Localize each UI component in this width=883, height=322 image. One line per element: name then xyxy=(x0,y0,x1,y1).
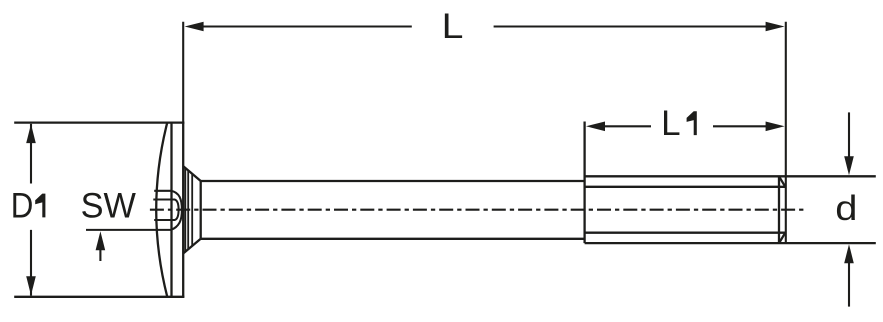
svg-text:L: L xyxy=(661,104,680,143)
svg-text:d: d xyxy=(835,189,857,228)
thread end chamfer edge xyxy=(778,176,780,243)
thread major bottom edge with d extension line xyxy=(585,242,876,244)
thread major top edge with d extension line xyxy=(585,175,876,177)
arrowhead L1 left xyxy=(586,122,605,132)
arrowhead L right xyxy=(766,22,785,32)
arrowhead L left xyxy=(185,22,204,32)
svg-text:L: L xyxy=(442,7,464,46)
arrowhead L1 right xyxy=(766,122,785,132)
thread minor top line xyxy=(585,186,786,188)
head rim edge line xyxy=(170,123,172,297)
label L1 xyxy=(661,104,697,143)
L/L1 right extension line merged with thread end face xyxy=(785,22,787,243)
d bottom arrow tail xyxy=(848,259,850,307)
head top edge with D1 extension line xyxy=(14,121,184,123)
dimension line L1 left segment xyxy=(604,125,651,127)
cone bottom diagonal xyxy=(183,239,200,254)
dimension line D1 upper segment xyxy=(30,124,32,184)
head back face xyxy=(182,123,184,297)
cone transition line 2 xyxy=(187,170,189,249)
svg-text:SW: SW xyxy=(81,186,136,225)
arrowhead d top xyxy=(844,156,854,175)
hex socket inner profile xyxy=(153,200,178,221)
centerline xyxy=(150,209,804,211)
head convex face arc xyxy=(156,123,167,297)
svg-text:D: D xyxy=(11,187,34,226)
shank bottom edge xyxy=(201,238,585,240)
dimension line L right segment xyxy=(494,25,768,27)
head bottom edge with D1 extension line xyxy=(14,296,184,298)
dimension line L1 right segment xyxy=(713,125,768,127)
arrowhead SW xyxy=(96,231,106,250)
L left extension line above head xyxy=(182,22,184,123)
thread end chamfer top diagonal xyxy=(779,176,785,187)
thread end chamfer bottom diagonal xyxy=(779,233,785,243)
shank start edge xyxy=(200,181,202,239)
cone transition line 3 xyxy=(191,174,193,246)
arrowhead D1 bottom xyxy=(26,276,36,295)
cone transition line 1 xyxy=(184,168,186,252)
hex socket outer profile with SW extension line xyxy=(86,191,182,230)
SW arrow tail xyxy=(99,246,101,261)
dimension line D1 lower segment xyxy=(30,230,32,296)
cone top diagonal xyxy=(183,166,200,181)
d top arrow tail xyxy=(848,112,850,160)
arrowhead D1 top xyxy=(26,124,36,143)
arrowhead d bottom xyxy=(844,244,854,263)
thread start edge with L1 extension line xyxy=(583,122,585,244)
label D1 xyxy=(11,187,46,226)
shank top edge xyxy=(201,180,585,182)
dimension line L left segment xyxy=(202,25,411,27)
thread minor bottom line xyxy=(585,232,786,234)
